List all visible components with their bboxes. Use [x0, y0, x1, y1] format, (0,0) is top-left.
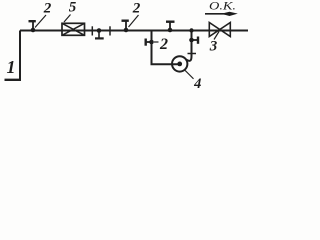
svg-text:2: 2 [43, 1, 52, 17]
svg-text:2: 2 [159, 36, 168, 53]
svg-text:3: 3 [209, 39, 218, 55]
svg-text:4: 4 [193, 76, 201, 92]
svg-text:5: 5 [69, 0, 77, 16]
svg-text:О.К.: О.К. [209, 0, 236, 12]
svg-text:1: 1 [7, 57, 16, 77]
svg-text:2: 2 [132, 1, 141, 17]
